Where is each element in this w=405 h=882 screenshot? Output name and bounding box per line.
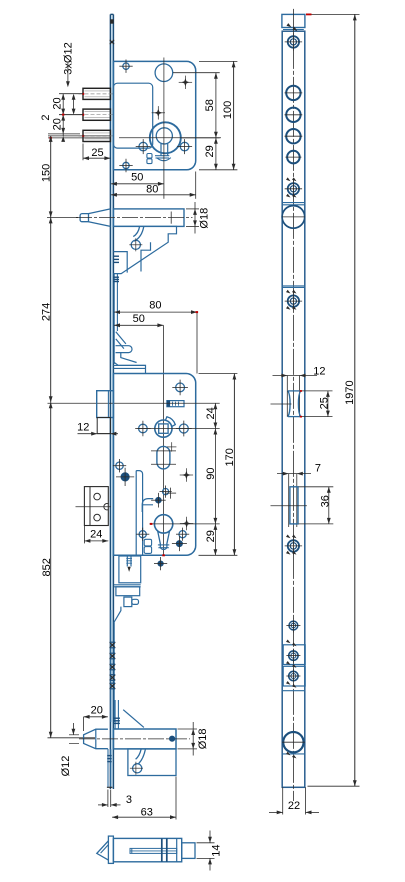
rod slot pocket [271, 474, 307, 527]
bottom view slot [130, 848, 177, 853]
dimension 80 top [111, 172, 196, 199]
top case center marks [152, 76, 193, 120]
screw hole top [285, 33, 302, 50]
top case euro cylinder [150, 122, 181, 160]
guide tab [142, 499, 153, 512]
svg-text:25: 25 [319, 397, 331, 409]
bottom view bolt tip wedge [97, 841, 109, 860]
svg-text:3xØ12: 3xØ12 [63, 42, 75, 74]
svg-text:2: 2 [40, 115, 52, 121]
main cylinder screws [136, 528, 189, 552]
latch pocket [271, 376, 303, 418]
dimension 3 rod [98, 790, 132, 808]
dimension 170 main case [199, 374, 238, 556]
dimension O12 bottom [60, 723, 79, 776]
svg-text:274: 274 [41, 303, 53, 321]
svg-text:22: 22 [288, 800, 300, 812]
svg-text:80: 80 [146, 183, 158, 195]
dimension 22 [269, 787, 319, 814]
screw box upper [283, 640, 305, 665]
dimension 63 [112, 777, 176, 820]
svg-text:1970: 1970 [344, 380, 356, 404]
svg-text:12: 12 [77, 421, 89, 433]
svg-text:Ø18: Ø18 [197, 729, 209, 750]
top case centerlines [119, 58, 221, 171]
bottom view faceplate section [108, 836, 113, 863]
faceplate front view strip [282, 31, 305, 787]
dimension 12 right [273, 366, 326, 378]
svg-text:852: 852 [41, 558, 53, 576]
svg-text:20: 20 [51, 97, 63, 109]
rod below bolt [107, 749, 112, 787]
bottom hook lever [130, 749, 146, 775]
label 3xO12 with leader [63, 42, 75, 87]
dimension 150 chain [41, 136, 53, 218]
svg-text:25: 25 [91, 147, 103, 159]
dimension 7 right [277, 463, 321, 476]
svg-text:24: 24 [90, 528, 102, 540]
follower side screws [135, 421, 192, 437]
case partition [136, 471, 142, 556]
bottom view bolt body [113, 838, 181, 861]
main case top screw [172, 380, 188, 396]
svg-text:20: 20 [51, 118, 63, 130]
svg-text:14: 14 [211, 844, 223, 856]
svg-text:170: 170 [224, 448, 236, 466]
pin spacing dimension 20 [51, 94, 83, 136]
plate joint line B [282, 286, 305, 288]
dimension O18 bottom [178, 722, 209, 756]
dimension 50 main case [114, 313, 163, 556]
main lock case [113, 374, 195, 556]
dimension 24 90 29 main case [205, 403, 217, 555]
actuator bracket under top bolt [113, 226, 176, 273]
plate joint line A [282, 203, 305, 205]
svg-text:50: 50 [131, 172, 143, 184]
top case cylinder screws [136, 139, 192, 154]
plate joint line C [282, 690, 305, 692]
bottom view groove rings [162, 838, 167, 861]
dimension 100 top case [199, 61, 237, 169]
dimension 24 striker [84, 526, 108, 544]
plate joint line D [282, 752, 305, 759]
center mark on cylinder line [150, 517, 220, 557]
svg-text:Ø18: Ø18 [199, 208, 211, 229]
screw hole second [285, 177, 302, 197]
main case spring bar [167, 401, 184, 407]
follower hub [155, 417, 176, 437]
adjuster bracket below case [119, 556, 167, 583]
small hole [286, 619, 300, 633]
cylinder hole bottom [282, 732, 305, 752]
dimension 50 top [111, 171, 164, 199]
screw hole fourth [285, 535, 302, 555]
svg-text:63: 63 [141, 806, 153, 818]
top case clip symbol [147, 154, 152, 164]
screw box lower [283, 661, 305, 688]
svg-text:20: 20 [91, 704, 103, 716]
bottom deadbolt O18 [79, 729, 190, 749]
svg-text:50: 50 [133, 313, 145, 325]
guide bracket above main case [113, 332, 145, 374]
faceplate screws mid [113, 459, 134, 486]
dimension 1970 [306, 14, 360, 787]
main euro cylinder [154, 515, 172, 550]
bottom bracket [113, 700, 143, 729]
svg-text:150: 150 [41, 164, 53, 182]
screw hole third [285, 290, 302, 310]
svg-text:29: 29 [205, 530, 217, 542]
faceplate top cap [282, 14, 305, 31]
svg-text:58: 58 [204, 99, 216, 111]
drive rod upper [113, 256, 119, 364]
top case inner plate [113, 83, 152, 148]
svg-text:90: 90 [205, 467, 217, 479]
main case centerlines [138, 428, 220, 430]
rod break marks [110, 642, 116, 689]
faceplate edge view (left) [110, 14, 114, 789]
dimension 80 main case [114, 300, 198, 374]
top case spindle hole [155, 64, 173, 82]
dimension 25 right [302, 391, 333, 417]
svg-text:Ø12: Ø12 [60, 756, 72, 777]
hook lever top [129, 226, 144, 251]
top pin bolts 3xO12 [79, 88, 113, 141]
lock stump cluster [151, 486, 176, 508]
svg-text:100: 100 [222, 101, 234, 119]
dimension 58 and 29 top case [173, 73, 220, 170]
top case mounting screws [119, 60, 132, 173]
dimension 274 chain [41, 217, 79, 402]
cylinder hole top [282, 206, 305, 229]
top deadbolt O18 [76, 209, 193, 227]
dimension 20 bottom [84, 704, 108, 731]
svg-text:24: 24 [205, 407, 217, 419]
pin protrusion dimension 25 [83, 144, 110, 161]
dimension 12 latch [77, 421, 118, 435]
dimension 852 chain [41, 402, 95, 738]
lower rod assembly [111, 585, 141, 722]
latch box left [97, 391, 114, 434]
svg-text:7: 7 [315, 463, 321, 475]
striker box 24 [76, 487, 112, 526]
svg-text:36: 36 [319, 495, 331, 507]
bottom bolt pocket [128, 749, 176, 776]
pin spacing dimension 2 and 20 [40, 115, 111, 142]
svg-text:12: 12 [313, 366, 325, 378]
adjustment holes row [285, 86, 303, 164]
top lock case [113, 61, 195, 169]
center mark star right [180, 468, 193, 481]
long extension line follower offset [48, 402, 220, 404]
spindle slot capsule [151, 441, 176, 472]
bottom view rear part [182, 843, 195, 859]
faceplate centerline [292, 9, 294, 801]
dimension 14 [197, 831, 223, 871]
dimension 36 right [299, 487, 334, 524]
main case clip symbol [144, 539, 151, 553]
dimension O18 top bolt [186, 202, 211, 234]
svg-text:29: 29 [204, 145, 216, 157]
svg-text:3: 3 [126, 794, 132, 806]
svg-text:80: 80 [149, 300, 161, 312]
